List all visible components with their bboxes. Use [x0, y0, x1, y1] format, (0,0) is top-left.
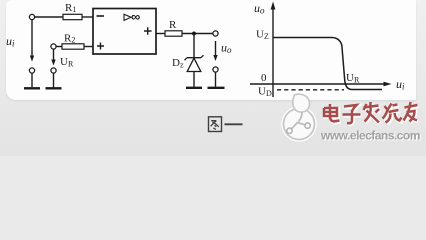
resistor R	[165, 19, 182, 36]
node uo output terminal	[213, 31, 218, 36]
label 0	[261, 72, 267, 84]
logo url text	[320, 129, 420, 143]
logo text 电子发烧友	[324, 102, 418, 123]
terminal	[29, 68, 34, 73]
arrow UR	[51, 49, 55, 65]
white content panel	[6, 0, 416, 100]
wire op-amp output	[156, 33, 165, 35]
svg-text:0: 0	[261, 72, 267, 84]
caption 图一	[209, 117, 243, 132]
label UD	[258, 86, 272, 99]
svg-text:UR: UR	[346, 72, 360, 85]
svg-text:uo: uo	[221, 41, 232, 56]
label ui	[6, 34, 15, 49]
resistor R2	[62, 33, 84, 50]
wire	[35, 16, 63, 18]
svg-text:R: R	[169, 19, 177, 31]
logo text 电子发烧友 white emboss	[325, 103, 419, 124]
ground	[186, 87, 202, 89]
svg-text:Dz: Dz	[172, 57, 184, 70]
svg-text:∞: ∞	[131, 9, 140, 24]
char 子	[343, 105, 361, 123]
label UR	[346, 72, 360, 85]
op-amp U1	[93, 9, 156, 55]
label Uz	[256, 29, 269, 42]
ground	[24, 87, 40, 89]
wire	[193, 34, 195, 58]
wire	[53, 73, 55, 87]
svg-text:UD: UD	[258, 86, 272, 99]
wire	[215, 72, 217, 87]
svg-text:uo: uo	[254, 1, 265, 16]
terminal	[213, 67, 218, 72]
zener diode Dz	[172, 55, 204, 71]
svg-text:R2: R2	[64, 33, 75, 45]
transfer curve	[273, 38, 382, 90]
wire	[182, 33, 213, 35]
arrow uo	[213, 41, 217, 61]
wire	[56, 46, 62, 48]
wire	[82, 16, 93, 18]
terminal	[51, 68, 56, 73]
wire ui vertical with arrow	[30, 20, 34, 62]
label UR	[60, 56, 74, 69]
char 电	[324, 104, 340, 122]
svg-text:R1: R1	[65, 2, 76, 14]
logo mark circle	[283, 94, 316, 140]
wire	[193, 72, 195, 87]
resistor R1	[63, 2, 82, 20]
char 烧	[383, 104, 402, 123]
label uo	[221, 41, 232, 56]
wire	[31, 73, 33, 87]
dashed line UD level	[277, 89, 344, 91]
axis ui horizontal	[250, 77, 405, 92]
char 发	[364, 102, 380, 123]
svg-text:ui: ui	[396, 77, 405, 92]
node ui input terminal	[29, 14, 34, 19]
svg-text:UZ: UZ	[256, 29, 269, 42]
char 友	[404, 102, 418, 122]
ground	[46, 87, 62, 89]
junction	[192, 32, 196, 36]
svg-text:ui: ui	[6, 34, 15, 49]
ground	[208, 87, 225, 89]
wire	[84, 46, 93, 48]
svg-text:UR: UR	[60, 56, 74, 69]
svg-text:www.elecfans.com: www.elecfans.com	[320, 129, 420, 143]
axis uo vertical	[254, 1, 275, 97]
node UR terminal	[51, 44, 56, 49]
